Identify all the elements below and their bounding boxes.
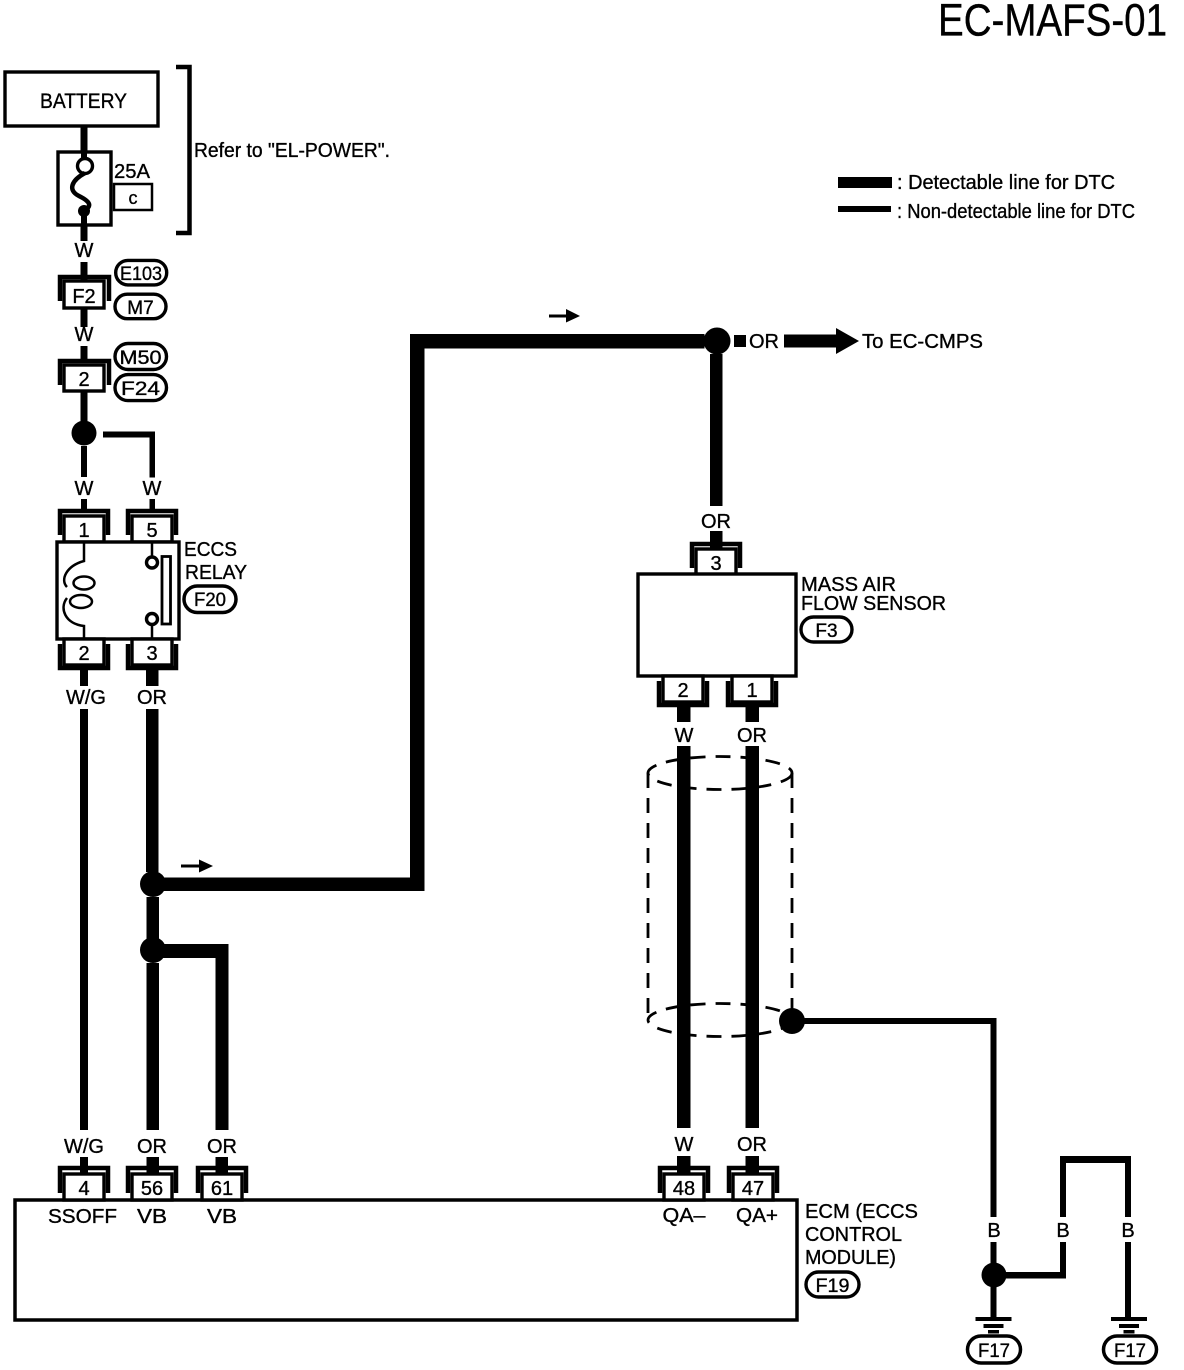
svg-text:ECCS: ECCS	[184, 539, 237, 561]
svg-text:1: 1	[746, 680, 757, 702]
svg-text:MODULE): MODULE)	[805, 1247, 896, 1269]
svg-text:To EC-CMPS: To EC-CMPS	[862, 331, 983, 353]
svg-text:VB: VB	[207, 1206, 237, 1228]
svg-text:CONTROL: CONTROL	[805, 1224, 902, 1246]
svg-text:ECM (ECCS: ECM (ECCS	[805, 1201, 918, 1223]
svg-text:2: 2	[78, 369, 89, 391]
svg-text:: Detectable line for DTC: : Detectable line for DTC	[897, 172, 1115, 194]
svg-text:3: 3	[146, 643, 157, 665]
svg-text:W: W	[75, 478, 94, 500]
svg-text:F2: F2	[72, 286, 95, 308]
svg-text:: Non-detectable line for DTC: : Non-detectable line for DTC	[897, 201, 1135, 223]
svg-text:Refer to "EL-POWER".: Refer to "EL-POWER".	[194, 140, 390, 162]
svg-text:E103: E103	[120, 264, 162, 285]
svg-text:B: B	[1056, 1220, 1069, 1242]
svg-text:W/G: W/G	[66, 687, 106, 709]
svg-text:FLOW SENSOR: FLOW SENSOR	[801, 593, 946, 615]
svg-text:W: W	[75, 240, 94, 262]
svg-text:OR: OR	[737, 725, 767, 747]
svg-text:OR: OR	[137, 1136, 167, 1158]
svg-text:OR: OR	[749, 331, 779, 353]
svg-text:M7: M7	[127, 298, 153, 319]
svg-text:OR: OR	[137, 687, 167, 709]
svg-text:25A: 25A	[114, 161, 151, 183]
svg-text:F17: F17	[978, 1341, 1010, 1362]
svg-text:4: 4	[78, 1178, 89, 1200]
svg-text:2: 2	[677, 680, 688, 702]
svg-text:c: c	[129, 188, 138, 208]
svg-text:OR: OR	[701, 511, 731, 533]
svg-text:SSOFF: SSOFF	[48, 1206, 117, 1228]
svg-text:56: 56	[141, 1178, 163, 1200]
svg-text:1: 1	[78, 520, 89, 542]
svg-text:B: B	[987, 1220, 1000, 1242]
svg-text:B: B	[1121, 1220, 1134, 1242]
svg-text:F17: F17	[1114, 1341, 1146, 1362]
svg-text:47: 47	[742, 1178, 764, 1200]
svg-text:61: 61	[211, 1178, 233, 1200]
svg-text:F19: F19	[816, 1276, 850, 1297]
svg-text:M50: M50	[120, 348, 162, 369]
svg-text:W: W	[143, 478, 162, 500]
svg-text:EC-MAFS-01: EC-MAFS-01	[938, 0, 1167, 46]
svg-text:W: W	[675, 1134, 694, 1156]
svg-text:VB: VB	[137, 1206, 167, 1228]
svg-text:OR: OR	[737, 1134, 767, 1156]
svg-text:QA–: QA–	[663, 1205, 707, 1227]
svg-text:2: 2	[78, 643, 89, 665]
svg-text:W: W	[75, 324, 94, 346]
svg-text:OR: OR	[207, 1136, 237, 1158]
svg-text:F3: F3	[815, 621, 837, 642]
svg-text:BATTERY: BATTERY	[40, 90, 127, 113]
svg-text:W: W	[675, 725, 694, 747]
svg-text:F20: F20	[194, 590, 226, 611]
svg-text:5: 5	[146, 520, 157, 542]
svg-text:RELAY: RELAY	[185, 562, 247, 584]
svg-text:48: 48	[673, 1178, 695, 1200]
svg-text:3: 3	[710, 553, 721, 575]
svg-text:F24: F24	[121, 379, 161, 400]
svg-text:QA+: QA+	[736, 1205, 778, 1227]
svg-text:W/G: W/G	[64, 1136, 104, 1158]
